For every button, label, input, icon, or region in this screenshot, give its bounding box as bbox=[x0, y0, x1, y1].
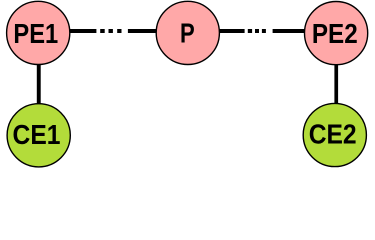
svg-text:CE1: CE1 bbox=[13, 119, 61, 150]
node P bbox=[156, 1, 219, 64]
svg-text:P: P bbox=[180, 18, 195, 49]
node PE1 bbox=[7, 1, 70, 64]
wire PE1-CE1 bbox=[37, 58, 41, 108]
node CE1 bbox=[7, 104, 70, 167]
wire PE1-P (solid, three dashes, solid) bbox=[68, 29, 157, 33]
wire PE2-CE2 bbox=[334, 58, 338, 108]
node PE2 bbox=[305, 1, 368, 64]
svg-text:CE2: CE2 bbox=[309, 118, 357, 149]
svg-text:PE2: PE2 bbox=[312, 18, 358, 49]
node CE2 bbox=[303, 103, 366, 166]
svg-text:PE1: PE1 bbox=[13, 18, 58, 49]
wire P-PE2 (solid, three dashes, solid) bbox=[218, 29, 306, 33]
